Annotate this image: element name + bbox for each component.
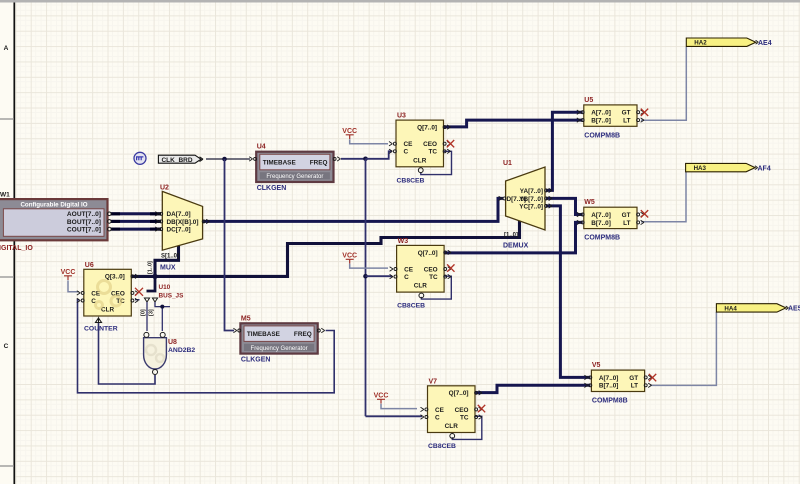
net name AE5 bbox=[788, 306, 800, 313]
svg-text:U4: U4 bbox=[257, 144, 266, 151]
svg-text:[1..0]: [1..0] bbox=[148, 261, 154, 274]
bus YB[7..0] DEMUX to W5 A bbox=[546, 198, 583, 214]
wire CLK_BRD to U4 TIMEBASE bbox=[206, 158, 250, 160]
svg-text:Q[7..0]: Q[7..0] bbox=[417, 125, 437, 132]
ruler row label A bbox=[4, 45, 9, 52]
bus tap U10 BUS_JS bbox=[144, 276, 157, 302]
demultiplexer U1 bbox=[499, 167, 552, 239]
wire U5 LT to HA2 bbox=[641, 47, 686, 120]
svg-text:[0]: [0] bbox=[141, 309, 147, 316]
wire VCC to W3 CE bbox=[350, 264, 388, 269]
bus YC[7..0] DEMUX to V5 A bbox=[546, 206, 590, 378]
svg-text:VCC: VCC bbox=[61, 269, 76, 276]
U6 CLR arrow pin bbox=[96, 318, 102, 323]
bus BOUT[7..0] DIO to MUX DB bbox=[111, 220, 161, 223]
vcc symbol for U3 bbox=[342, 128, 357, 139]
vcc symbol for V7 bbox=[374, 393, 389, 404]
svg-text:B[7..0]: B[7..0] bbox=[599, 383, 619, 390]
svg-text:W1: W1 bbox=[0, 192, 10, 199]
svg-text:CE: CE bbox=[404, 141, 414, 148]
svg-text:W5: W5 bbox=[584, 199, 595, 206]
svg-text:C: C bbox=[4, 343, 9, 350]
svg-text:Configurable Digital IO: Configurable Digital IO bbox=[20, 202, 87, 209]
counter V7 CB8CEB bbox=[421, 378, 483, 450]
output tag HA4 bbox=[716, 304, 788, 313]
label DEMUX bbox=[503, 243, 529, 250]
svg-text:CLK_BRD: CLK_BRD bbox=[161, 157, 192, 164]
svg-text:COMPM8B: COMPM8B bbox=[592, 398, 628, 405]
svg-text:M5: M5 bbox=[241, 315, 251, 322]
multiplexer U2 bbox=[155, 191, 209, 259]
junction clock node at U3 bbox=[363, 157, 368, 162]
svg-text:GT: GT bbox=[629, 375, 638, 382]
svg-text:U5: U5 bbox=[584, 97, 593, 104]
svg-text:CLR: CLR bbox=[413, 157, 427, 164]
svg-text:GT: GT bbox=[622, 212, 631, 219]
svg-text:B[7..0]: B[7..0] bbox=[591, 118, 611, 125]
svg-text:TC: TC bbox=[429, 274, 438, 281]
label BUS_JS bbox=[159, 293, 185, 300]
no-connect X on W5 GT bbox=[641, 210, 648, 217]
svg-text:CE: CE bbox=[404, 266, 414, 273]
bus [1..0] counter Q to DEMUX select bbox=[132, 220, 520, 277]
bus Q[7..0] U3 to U5 B bbox=[444, 120, 583, 127]
bus COUT[7..0] DIO to MUX DC bbox=[111, 228, 161, 231]
vcc symbol for U6 bbox=[61, 269, 76, 280]
svg-text:MUX: MUX bbox=[160, 265, 176, 272]
net tag CLK_BRD bbox=[158, 155, 203, 164]
svg-text:CEO: CEO bbox=[424, 266, 438, 273]
no-connect X on U3 CEO bbox=[447, 140, 454, 147]
wire U6 TC stub bbox=[135, 299, 140, 301]
svg-text:TIMEBASE: TIMEBASE bbox=[247, 331, 281, 338]
junction CLK_BRD wire bbox=[222, 157, 227, 162]
svg-text:TIMEBASE: TIMEBASE bbox=[263, 160, 297, 167]
svg-text:CLKGEN: CLKGEN bbox=[241, 357, 271, 364]
svg-text:U2: U2 bbox=[160, 185, 169, 192]
junction on select bus at MUX tap bbox=[152, 274, 157, 279]
svg-text:CEO: CEO bbox=[423, 141, 437, 148]
svg-text:BUS_JS: BUS_JS bbox=[159, 293, 185, 300]
no-connect X on V5 GT bbox=[649, 374, 656, 381]
ruler row label C bbox=[4, 343, 9, 350]
counter U3 CB8CEB bbox=[389, 113, 451, 185]
counter W3 CB8CEB bbox=[390, 238, 452, 310]
svg-text:AOUT[7..0]: AOUT[7..0] bbox=[67, 211, 101, 218]
svg-text:A: A bbox=[4, 45, 9, 52]
svg-text:COMPM8B: COMPM8B bbox=[584, 235, 620, 242]
wire V5 LT to HA4 bbox=[650, 312, 717, 385]
svg-text:DC[7..0]: DC[7..0] bbox=[167, 227, 191, 234]
svg-text:A[7..0]: A[7..0] bbox=[599, 375, 619, 382]
bus X[7..0] MUX output to DEMUX D input bbox=[203, 198, 503, 221]
svg-text:C: C bbox=[404, 149, 409, 156]
svg-text:LT: LT bbox=[623, 220, 630, 227]
svg-text:BOUT[7..0]: BOUT[7..0] bbox=[67, 219, 101, 226]
svg-text:YC[7..0]: YC[7..0] bbox=[519, 203, 543, 210]
svg-text:DIGITAL_IO: DIGITAL_IO bbox=[0, 245, 33, 252]
no-connect X on V7 CEO bbox=[478, 405, 485, 412]
svg-text:U10: U10 bbox=[159, 284, 171, 291]
svg-text:D[7..0]: D[7..0] bbox=[507, 196, 527, 203]
svg-text:U6: U6 bbox=[85, 262, 94, 269]
label U8 bbox=[168, 339, 177, 346]
svg-text:CLR: CLR bbox=[445, 423, 459, 430]
output tag HA3 bbox=[686, 163, 758, 172]
svg-text:[3]: [3] bbox=[149, 309, 155, 316]
svg-text:AND2B2: AND2B2 bbox=[168, 347, 195, 354]
wire clock to V7 C bbox=[366, 415, 423, 417]
svg-text:LT: LT bbox=[631, 383, 638, 390]
svg-text:YA[7..0]: YA[7..0] bbox=[520, 188, 543, 195]
svg-text:Q[3..0]: Q[3..0] bbox=[105, 274, 125, 281]
label AND2B2 bbox=[168, 347, 195, 354]
svg-text:Q[7..0]: Q[7..0] bbox=[418, 250, 438, 257]
block W1 Configurable Digital IO bbox=[0, 199, 111, 240]
svg-text:VCC: VCC bbox=[342, 128, 357, 135]
svg-text:CEO: CEO bbox=[455, 407, 469, 414]
svg-text:C: C bbox=[435, 414, 440, 421]
bus Q[7..0] W3 to W5 B bbox=[443, 222, 583, 253]
clock source icon bbox=[134, 152, 146, 164]
wire V7 TC to CLR bbox=[452, 416, 482, 439]
svg-text:COUT[7..0]: COUT[7..0] bbox=[67, 227, 101, 234]
svg-text:B[7..0]: B[7..0] bbox=[591, 220, 611, 227]
no-connect X on W3 CEO bbox=[447, 264, 454, 271]
svg-text:HA3: HA3 bbox=[694, 165, 707, 172]
svg-text:LT: LT bbox=[623, 118, 630, 125]
wire BUS_JS bit3 to U8 input bbox=[155, 302, 170, 331]
net name AE4 bbox=[758, 40, 772, 47]
output tag HA2 bbox=[686, 38, 758, 47]
svg-text:DEMUX: DEMUX bbox=[503, 243, 529, 250]
rotated net label bit3 bbox=[149, 309, 155, 316]
and gate U8 bbox=[144, 332, 167, 374]
wire W5 LT to HA3 bbox=[641, 172, 686, 222]
net name AF4 bbox=[758, 166, 771, 173]
wire clock to U3 C bbox=[366, 151, 393, 159]
counter U6 bbox=[77, 262, 139, 316]
svg-text:C: C bbox=[404, 274, 409, 281]
svg-text:AF4: AF4 bbox=[758, 166, 771, 173]
rotated net label bit0 bbox=[141, 309, 147, 316]
svg-text:VCC: VCC bbox=[342, 253, 357, 260]
label COUNTER bbox=[84, 326, 118, 333]
svg-text:VCC: VCC bbox=[374, 393, 389, 400]
svg-text:Q[7..0]: Q[7..0] bbox=[449, 390, 469, 397]
wire clock vertical distribution bbox=[365, 159, 367, 417]
no-connect X on U6 CEO bbox=[135, 288, 143, 296]
svg-text:FREQ: FREQ bbox=[310, 160, 328, 167]
label DIGITAL_IO bbox=[0, 245, 33, 252]
svg-text:AE4: AE4 bbox=[758, 40, 772, 47]
bus AOUT[7..0] DIO to MUX DA bbox=[111, 212, 161, 215]
vcc symbol for W3 bbox=[342, 253, 357, 264]
label U10 bbox=[159, 284, 171, 291]
label MUX bbox=[160, 265, 176, 272]
wire W3 TC to CLR bbox=[421, 276, 451, 299]
wire VCC to V7 CE bbox=[381, 404, 417, 409]
svg-text:CE: CE bbox=[435, 407, 445, 414]
svg-text:U3: U3 bbox=[397, 113, 406, 120]
svg-text:DB[X[B].0]: DB[X[B].0] bbox=[167, 219, 199, 226]
svg-text:A[7..0]: A[7..0] bbox=[591, 212, 611, 219]
wire VCC to U3 CE bbox=[350, 139, 388, 144]
svg-text:[1..0]: [1..0] bbox=[504, 233, 518, 239]
svg-text:W3: W3 bbox=[398, 238, 409, 245]
wire clock to W3 C bbox=[366, 275, 393, 277]
svg-text:S[1..0]: S[1..0] bbox=[161, 254, 179, 260]
svg-text:TC: TC bbox=[428, 149, 437, 156]
comparator W5 COMPM8B bbox=[577, 199, 644, 241]
frequency generator M5 CLKGEN bbox=[233, 315, 324, 363]
label W1 bbox=[0, 192, 10, 199]
svg-text:V7: V7 bbox=[429, 378, 438, 385]
wire U4 FREQ output to clock node bbox=[341, 158, 366, 160]
junction clock node at W3 bbox=[363, 274, 368, 279]
svg-text:AE5: AE5 bbox=[788, 306, 800, 313]
svg-text:HA2: HA2 bbox=[694, 40, 707, 47]
wire U8 output to U6 CLR bbox=[99, 322, 156, 384]
svg-text:COMPM8B: COMPM8B bbox=[584, 132, 620, 139]
svg-text:V5: V5 bbox=[592, 362, 601, 369]
svg-text:CB8CEB: CB8CEB bbox=[397, 177, 425, 184]
svg-text:U1: U1 bbox=[503, 160, 512, 167]
svg-text:CB8CEB: CB8CEB bbox=[428, 443, 456, 450]
junction BUS_JS bit3 bbox=[160, 305, 164, 309]
label U1 bbox=[503, 160, 512, 167]
svg-text:FREQ: FREQ bbox=[294, 331, 312, 338]
comparator V5 COMPM8B bbox=[584, 362, 651, 404]
wire U3 TC to CLR bbox=[421, 151, 452, 174]
svg-text:CB8CEB: CB8CEB bbox=[397, 303, 425, 310]
comparator U5 COMPM8B bbox=[577, 97, 644, 139]
sheet border ruler line bbox=[0, 3, 14, 484]
bus YA[7..0] DEMUX to U5 A bbox=[546, 112, 583, 190]
bus MUX select tap bbox=[155, 244, 179, 276]
svg-text:HA4: HA4 bbox=[724, 305, 737, 312]
svg-text:CLR: CLR bbox=[414, 283, 428, 290]
svg-text:TC: TC bbox=[460, 414, 469, 421]
rotated net label [1..0] on MUX select bbox=[148, 261, 154, 274]
wire CLK branch down to M5 bbox=[225, 159, 235, 331]
wire M5 FREQ to U6 C bbox=[78, 300, 335, 393]
svg-text:CLKGEN: CLKGEN bbox=[257, 185, 287, 192]
svg-text:COUNTER: COUNTER bbox=[84, 326, 118, 333]
no-connect X on U5 GT bbox=[641, 109, 648, 116]
label U2 bbox=[160, 185, 169, 192]
svg-text:A[7..0]: A[7..0] bbox=[591, 110, 611, 117]
svg-text:Frequency Generator: Frequency Generator bbox=[251, 346, 308, 352]
svg-text:GT: GT bbox=[622, 110, 631, 117]
svg-text:U8: U8 bbox=[168, 339, 177, 346]
wire VCC to U6 CE bbox=[68, 280, 79, 291]
bus Q[7..0] V7 to V5 B bbox=[474, 385, 590, 392]
svg-text:DA[7..0]: DA[7..0] bbox=[167, 211, 191, 218]
frequency generator U4 CLKGEN bbox=[249, 144, 340, 192]
wire BUS_JS bit0 to U8 input bbox=[146, 302, 148, 331]
svg-text:Frequency Generator: Frequency Generator bbox=[266, 174, 323, 180]
